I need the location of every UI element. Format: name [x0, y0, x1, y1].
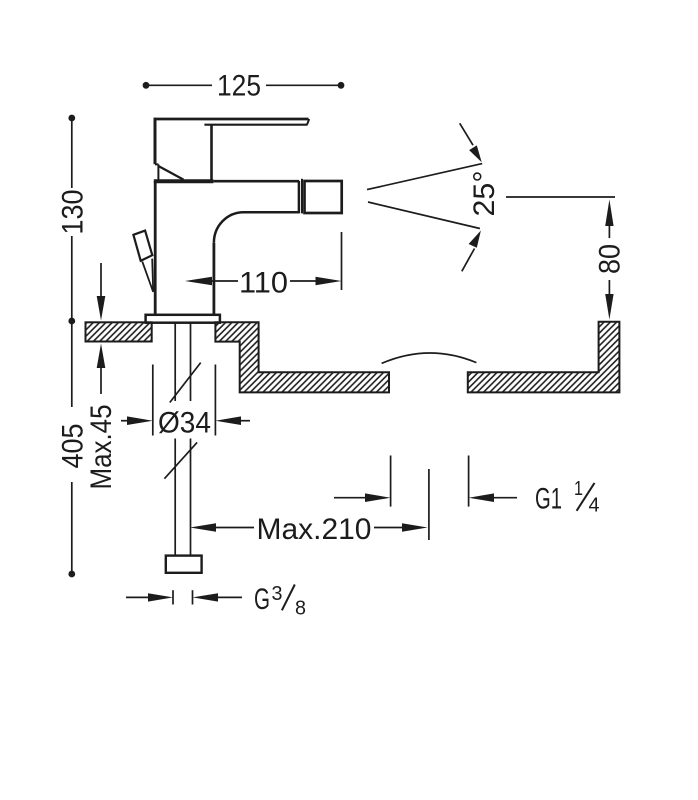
faucet body top thick line	[154, 179, 214, 183]
countertop left slab	[86, 322, 152, 341]
svg-text:1: 1	[574, 477, 583, 500]
dimension 405 bottom dot	[68, 571, 75, 578]
dimension G3/8 right arrow	[193, 593, 219, 601]
svg-text:Ø34: Ø34	[158, 407, 211, 440]
dimension G1 1/4 right arrow	[490, 497, 517, 499]
spray cone lower line	[368, 202, 480, 229]
dimension 80 vertical line	[608, 225, 610, 295]
svg-text:25°: 25°	[468, 171, 501, 217]
spray cone upper arrow	[460, 123, 473, 145]
dimension 110 right tick	[341, 232, 343, 290]
dimension 125 right dot	[338, 82, 345, 89]
dimension Max.45 down arrow	[100, 263, 102, 298]
dimension 125 line	[146, 84, 341, 86]
dimension Max.45 up arrow	[100, 366, 102, 394]
pop-up rod	[142, 259, 153, 292]
svg-text:Max.210: Max.210	[257, 513, 372, 546]
svg-text:125: 125	[217, 70, 261, 103]
faucet handle tip bevel	[307, 119, 309, 125]
faucet handle left edge	[154, 118, 157, 164]
faucet handle front vertical	[210, 125, 213, 180]
faucet pillar right edge	[212, 243, 215, 315]
svg-text:G1: G1	[535, 483, 562, 516]
spray cone upper line	[367, 164, 482, 190]
dimension Max.210 right arrow	[374, 527, 406, 529]
bidet deck step piece	[215, 322, 389, 392]
dimension 80 up arrow	[605, 200, 613, 227]
dimension G1 1/4 right tick	[468, 456, 470, 507]
aerator body	[305, 181, 342, 213]
svg-text:80: 80	[594, 244, 627, 274]
pipe break slash lower	[164, 442, 197, 478]
dimension 405 shared dot	[68, 318, 75, 325]
dimension 80 horizontal line	[506, 196, 615, 198]
dimension Ø34 left tick	[152, 365, 154, 436]
faucet spout top edge	[213, 180, 299, 183]
svg-text:130: 130	[57, 190, 90, 235]
hose nut	[166, 556, 202, 573]
faucet handle underside diagonal	[158, 166, 183, 180]
svg-text:8: 8	[295, 597, 306, 620]
dimension 130 line	[71, 118, 73, 321]
dimension Max.210 right tick	[428, 469, 430, 540]
faucet spout right edge	[298, 181, 301, 213]
supply pipe	[175, 323, 190, 555]
svg-text:G: G	[254, 583, 270, 616]
dimension Max.210 left arrow	[190, 523, 216, 532]
dimension G1 1/4 left tick	[390, 456, 392, 507]
dimension 110 right arrow	[290, 280, 330, 282]
faucet handle blade bottom	[204, 124, 307, 126]
dimension 110 left arrow	[185, 277, 212, 286]
bidet bottom right and wall	[468, 322, 620, 393]
dimension Ø34 left arrow	[121, 420, 131, 422]
faucet handle top edge	[154, 118, 309, 121]
dimension 405 line	[71, 321, 73, 574]
faucet handle rear step	[155, 164, 158, 179]
faucet body left edge	[154, 181, 157, 315]
dimension G1 1/4 left arrow	[334, 497, 369, 499]
dimension 130 top dot	[68, 115, 75, 122]
pop-up knob	[133, 231, 152, 261]
pipe break slash upper	[170, 363, 201, 403]
dimension Ø34 right arrow	[238, 420, 250, 422]
spray cone lower arrow	[462, 249, 475, 272]
dimension G3/8 left arrow	[126, 596, 152, 598]
base plate	[146, 315, 220, 323]
svg-text:3: 3	[272, 582, 283, 605]
dimension G3/8 left tick	[172, 590, 174, 604]
aerator neck	[301, 179, 303, 214]
dimension G3/8 right tick	[192, 590, 194, 604]
svg-text:110: 110	[239, 267, 288, 300]
dimension 80 down arrow	[605, 294, 613, 320]
drain arc	[382, 353, 477, 363]
faucet underside arc	[214, 212, 244, 243]
svg-text:Max.45: Max.45	[85, 405, 118, 490]
dimension 125 left dot	[143, 82, 150, 89]
dimension Ø34 right tick	[214, 365, 216, 436]
svg-text:4: 4	[589, 494, 600, 517]
faucet spout underside	[244, 211, 299, 214]
